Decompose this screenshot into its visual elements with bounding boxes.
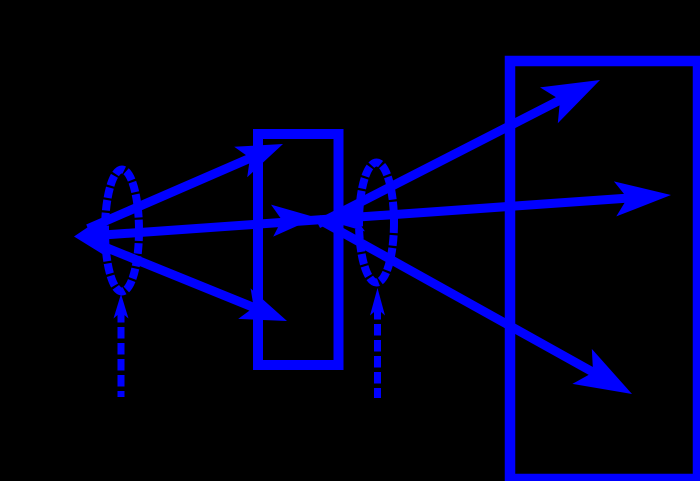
object arrow shaft under lens L1 (dashed)	[118, 311, 125, 397]
arrowhead lower right	[572, 349, 632, 394]
arrowhead middle right	[614, 181, 671, 216]
lens L1 (dashed ellipse)	[105, 170, 139, 292]
aperture stop rectangle	[258, 134, 339, 365]
chief ray long line (wire)	[84, 198, 633, 237]
ray to aperture top (wire)	[88, 153, 263, 229]
upper right ray (wire)	[318, 97, 566, 224]
arrowhead at aperture top	[234, 144, 283, 177]
small left-pointing arrowhead at bowtie (chief ray reverse direction)	[320, 199, 365, 231]
arrowhead upper right	[540, 80, 600, 123]
up arrowhead under lens L1	[114, 294, 129, 319]
lens L2 (dashed ellipse)	[359, 163, 394, 283]
ray to aperture bottom (wire)	[90, 241, 262, 311]
lower right ray (wire)	[318, 219, 599, 376]
screen box	[510, 61, 698, 479]
up arrowhead under lens L2	[370, 288, 385, 316]
mid chief-ray arrowhead	[271, 205, 316, 237]
big left-pointing arrowhead at focus point	[74, 213, 110, 259]
object arrow shaft under lens L2 (dashed)	[374, 308, 381, 398]
arrowhead at aperture bottom	[238, 288, 287, 321]
